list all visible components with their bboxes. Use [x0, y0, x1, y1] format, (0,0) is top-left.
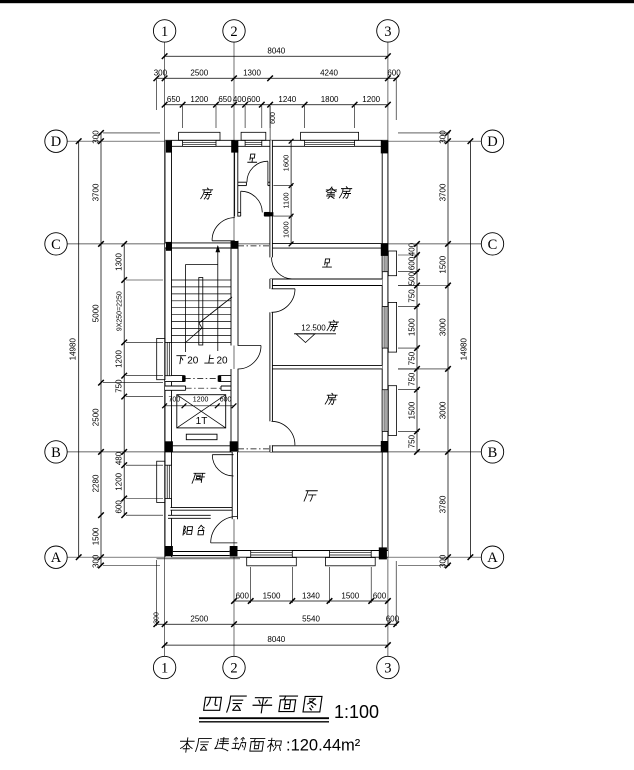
svg-text::120.44m²: :120.44m²: [286, 737, 361, 755]
svg-text:1500: 1500: [408, 401, 417, 419]
svg-text:1240: 1240: [278, 95, 296, 104]
svg-text:750: 750: [408, 351, 417, 365]
svg-text:1300: 1300: [243, 69, 261, 78]
svg-text:2: 2: [230, 24, 237, 40]
svg-text:600: 600: [373, 591, 387, 600]
svg-text:A: A: [51, 550, 62, 566]
svg-text:C: C: [488, 237, 498, 253]
svg-text:1500: 1500: [439, 255, 448, 273]
svg-text:300: 300: [154, 69, 168, 78]
svg-text:700: 700: [168, 397, 180, 404]
svg-text:2500: 2500: [92, 408, 101, 426]
svg-text:1500: 1500: [263, 591, 281, 600]
svg-text:3700: 3700: [439, 183, 448, 201]
svg-text:1200: 1200: [115, 350, 124, 368]
svg-text:1200: 1200: [193, 397, 209, 404]
svg-text:2500: 2500: [190, 614, 208, 623]
svg-text:1500: 1500: [341, 591, 359, 600]
svg-text:D: D: [487, 134, 497, 150]
svg-text:300: 300: [439, 554, 448, 568]
svg-text:1200: 1200: [190, 95, 208, 104]
svg-text:750: 750: [115, 379, 124, 393]
svg-text:4240: 4240: [320, 69, 338, 78]
svg-text:14980: 14980: [69, 338, 78, 361]
svg-text:3: 3: [384, 24, 391, 40]
svg-text:400: 400: [233, 95, 247, 104]
svg-text:1340: 1340: [302, 591, 320, 600]
svg-text:1200: 1200: [115, 472, 124, 490]
svg-text:D: D: [51, 134, 61, 150]
svg-text:1200: 1200: [362, 95, 380, 104]
svg-text:14980: 14980: [460, 338, 469, 361]
svg-text:500: 500: [408, 271, 417, 285]
svg-text:3000: 3000: [439, 401, 448, 419]
svg-text:600: 600: [247, 95, 261, 104]
svg-text:A: A: [487, 550, 498, 566]
svg-text:1500: 1500: [92, 527, 101, 545]
svg-text:600: 600: [236, 591, 250, 600]
svg-text:600: 600: [387, 69, 401, 78]
svg-text:1800: 1800: [321, 95, 339, 104]
svg-text:1:100: 1:100: [334, 702, 379, 722]
svg-text:1: 1: [161, 24, 168, 40]
svg-text:600: 600: [408, 256, 417, 270]
svg-text:12.500: 12.500: [301, 324, 326, 333]
svg-text:8040: 8040: [267, 635, 285, 644]
svg-text:300: 300: [439, 130, 448, 144]
svg-text:5000: 5000: [92, 304, 101, 322]
svg-text:9X250=2250: 9X250=2250: [117, 291, 124, 331]
svg-text:1000: 1000: [282, 221, 291, 238]
svg-text:3000: 3000: [439, 318, 448, 336]
svg-text:750: 750: [408, 434, 417, 448]
svg-text:2280: 2280: [92, 474, 101, 492]
svg-text:3700: 3700: [92, 183, 101, 201]
svg-text:1100: 1100: [282, 192, 291, 208]
svg-text:1T: 1T: [196, 416, 208, 427]
svg-text:650: 650: [167, 95, 181, 104]
svg-text:400: 400: [408, 242, 417, 256]
svg-text:480: 480: [115, 451, 124, 465]
svg-text:300: 300: [92, 130, 101, 144]
svg-text:300: 300: [153, 612, 160, 624]
svg-text:750: 750: [408, 289, 417, 303]
svg-text:3780: 3780: [439, 495, 448, 513]
svg-text:650: 650: [218, 95, 232, 104]
svg-text:300: 300: [92, 554, 101, 568]
svg-text:600: 600: [115, 500, 124, 514]
svg-text:5540: 5540: [302, 614, 320, 623]
svg-text:2500: 2500: [190, 69, 208, 78]
svg-text:2: 2: [230, 661, 237, 677]
svg-text:3: 3: [384, 661, 391, 677]
svg-text:20: 20: [187, 356, 199, 367]
svg-text:B: B: [488, 445, 498, 461]
svg-text:C: C: [51, 237, 61, 253]
svg-text:600: 600: [386, 614, 400, 623]
svg-text:600: 600: [270, 112, 277, 124]
svg-text:B: B: [51, 445, 61, 461]
svg-text:1500: 1500: [408, 318, 417, 336]
svg-text:8040: 8040: [267, 47, 285, 56]
svg-text:750: 750: [408, 372, 417, 386]
svg-text:1600: 1600: [282, 155, 291, 172]
svg-text:600: 600: [220, 397, 232, 404]
svg-text:1300: 1300: [115, 253, 124, 271]
svg-text:1: 1: [161, 661, 168, 677]
svg-text:20: 20: [216, 356, 228, 367]
